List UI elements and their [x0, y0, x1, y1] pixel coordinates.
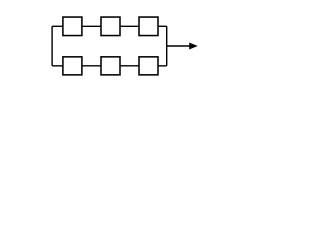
wire: output arrow shaft	[167, 45, 190, 47]
block B3 (top-right square)	[139, 17, 158, 36]
wire: right vertical bus	[166, 26, 168, 66]
wire: top branch, B2 to B3	[120, 25, 139, 27]
wire: bottom branch, B5 to B6	[120, 65, 139, 67]
wire: left vertical bus	[51, 26, 53, 66]
block B1 (top-left square)	[63, 17, 82, 36]
wire: left stub to bottom branch	[52, 65, 63, 67]
block B5 (bottom-middle square)	[101, 57, 120, 75]
block B6 (bottom-right square)	[139, 57, 158, 75]
wire: bottom branch to right bus	[158, 65, 167, 67]
wire: top branch, B1 to B2	[82, 25, 101, 27]
block B4 (bottom-left square)	[63, 57, 82, 75]
wire: left stub to top branch	[52, 25, 63, 27]
block B2 (top-middle square)	[101, 17, 120, 36]
wire: top branch to right bus	[158, 25, 167, 27]
wire: bottom branch, B4 to B5	[82, 65, 101, 67]
output arrowhead	[189, 43, 198, 50]
